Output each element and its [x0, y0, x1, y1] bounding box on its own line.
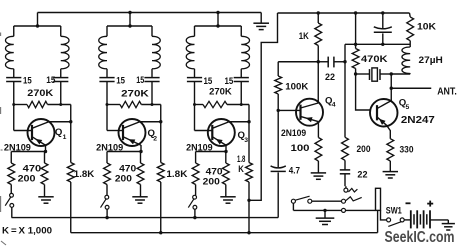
node: row 3 ground junction [323, 209, 326, 212]
wire: stage 3 base wire [195, 130, 213, 132]
svg-text:ANT.: ANT. [437, 87, 457, 98]
wire: stage 2 switch to keying rail [106, 209, 108, 217]
svg-text:100K: 100K [285, 82, 308, 92]
node: stage 2 collector junction [159, 120, 162, 123]
ground (Q5 emitter) [383, 171, 398, 173]
svg-text:SeekIC.com: SeekIC.com [385, 229, 455, 246]
svg-text:10K: 10K [417, 22, 436, 32]
svg-text:1.8: 1.8 [237, 154, 245, 164]
transistor Q4 (2N109 PNP) [296, 99, 323, 126]
wire: jack to SW1 [381, 210, 387, 220]
wire: stage 2 collector rail [160, 105, 162, 163]
node: stage 3 rail on bottom rail [247, 231, 250, 234]
wire: bottom supply rail [71, 232, 378, 234]
svg-text:1K: 1K [299, 31, 309, 41]
wire: stage 1 1.8K to bottom rail [70, 182, 72, 233]
node: tuning cap bottom on wire [381, 43, 384, 46]
svg-text:5: 5 [406, 104, 410, 111]
svg-text:22: 22 [325, 72, 335, 82]
svg-text:15: 15 [46, 75, 55, 85]
node: stage 1 collector junction [69, 120, 72, 123]
resistor 330 [387, 139, 394, 161]
capacitor 15 (stage 1 right) [53, 77, 68, 79]
node: stage 3 right cap / 270K [240, 103, 243, 106]
node: stage 3 collector junction [247, 120, 250, 123]
capacitor (tuning, top right) [382, 13, 384, 28]
svg-text:470: 470 [119, 164, 136, 174]
node: crystal / 27uH junction [390, 72, 393, 75]
node: Q3 emitter junction [224, 150, 227, 153]
resistor 200 (Q5) [344, 62, 346, 138]
wire: Q2 emitter drop [140, 145, 142, 152]
node: stage 2 left cap / 270K [106, 103, 109, 106]
wire: 22/200 chain top [344, 44, 346, 61]
svg-text:200: 200 [18, 174, 36, 184]
inductor 27uH [402, 47, 410, 73]
jack J1 [376, 188, 381, 210]
node: stage 2 drop on top rail [128, 11, 131, 14]
node: 1K / 22 / collector junction [317, 60, 320, 63]
capacitor 15 (stage 3 left) [187, 77, 202, 79]
resistor 10K [409, 13, 412, 17]
ground (stage 1 470) [38, 196, 53, 198]
node: stage 3 left cap / 270K [193, 103, 196, 106]
svg-text:470: 470 [206, 166, 223, 176]
wire: row 2 left stem [292, 203, 294, 210]
node: stage 1 left cap / 270K [12, 103, 15, 106]
svg-text:200: 200 [357, 144, 371, 154]
label - (battery) [406, 202, 411, 204]
crystal XTAL [356, 73, 370, 75]
capacitor 15 (stage 2 right) [144, 77, 159, 79]
node: stage 2 right cap / 270K [151, 103, 154, 106]
ground (top rail, right end) [260, 13, 262, 24]
resistor 1.8K (stage 3) [246, 163, 253, 183]
resistor 470 (stage 1) [44, 152, 46, 164]
svg-text:470K: 470K [361, 54, 388, 64]
resistor 100 [315, 138, 322, 162]
svg-text:15: 15 [116, 75, 125, 85]
transistor Q2 (2N109 PNP) [119, 119, 146, 146]
inductor T3 primary (left winding) [194, 26, 196, 36]
wire: supply leg from right rail down/left [249, 13, 278, 200]
resistor 200 (stage 1) [10, 152, 12, 164]
wire: Q4 base wire [278, 109, 300, 111]
wire: stage 1 collector rail [70, 105, 72, 163]
wire: 22 keying cap to jack contact [345, 186, 347, 188]
resistor 470K [355, 13, 357, 49]
wire: row 3 to jack [346, 209, 376, 211]
svg-text:27µH: 27µH [419, 55, 444, 65]
wire: stage 2 1.8K to bottom rail [160, 182, 162, 233]
wire: Q2 collector to rail [140, 121, 161, 123]
resistor 1K [317, 13, 319, 23]
node: stage 2 transformer centre tap [128, 24, 131, 27]
wire: Q5 emitter drop [387, 125, 391, 138]
wire: row 2 [312, 200, 342, 202]
resistor 200 (stage 3) [195, 152, 197, 164]
transistor Q5 (2N247 PNP) [370, 99, 398, 127]
node: stage 1 right cap / 270K [59, 103, 62, 106]
svg-text:15: 15 [136, 75, 144, 85]
wire: Q3 emitter drop [225, 145, 227, 152]
svg-text:270K: 270K [209, 86, 232, 96]
switch SW1 [387, 218, 391, 222]
transformer T2 top wire [107, 25, 152, 27]
resistor 100K [277, 62, 279, 76]
wire: keying rail [12, 217, 279, 219]
node: stage 2 key on keying rail [105, 216, 108, 219]
wire: Q3 collector to rail [229, 121, 249, 123]
wire: antenna feed [391, 87, 431, 89]
node: stage 3 transformer centre tap [216, 24, 219, 27]
svg-text:200: 200 [203, 176, 220, 186]
wire: stage 1 emitter wire [11, 151, 45, 153]
node: ANT junction [390, 87, 393, 90]
node: stage 1 transformer centre tap [36, 24, 39, 27]
transformer T1 top wire [14, 25, 61, 27]
svg-text:100: 100 [291, 143, 310, 153]
svg-text:K = X 1,000: K = X 1,000 [2, 225, 52, 235]
svg-text:1: 1 [63, 134, 67, 141]
node: 1K top on rail [317, 11, 320, 14]
transformer T3 top wire [195, 25, 242, 27]
svg-text:1.8K: 1.8K [166, 169, 187, 179]
svg-text:22: 22 [357, 170, 367, 180]
wire: stage 1 feed drop from rail [37, 13, 39, 27]
wire: Q5 collector riser [390, 74, 392, 101]
node: supply leg joins 1.8K rail of stage 3 [247, 199, 250, 202]
wire: stage 3 emitter wire [196, 151, 226, 153]
wire: stage 3 collector rail [248, 105, 250, 163]
svg-text:270K: 270K [27, 88, 53, 98]
svg-text:3: 3 [244, 137, 248, 144]
wire: bottom rail to jack [377, 210, 379, 232]
wire: Q4 collector riser [317, 62, 319, 103]
resistor 470 (stage 2) [140, 152, 142, 164]
inductor T1 primary (left winding) [13, 26, 15, 36]
svg-text:4: 4 [332, 102, 336, 109]
inductor T1 secondary (right winding) [60, 26, 62, 36]
label + (battery) [427, 203, 433, 205]
wire: 470K to Q5 base [356, 74, 371, 110]
resistor 270K (stage 3) [195, 104, 204, 106]
svg-text:15: 15 [204, 76, 213, 86]
switch contact (row 2 right) [342, 199, 346, 203]
switch contact (row 3) [342, 208, 346, 212]
svg-text:15: 15 [23, 75, 32, 85]
svg-text:2: 2 [153, 135, 157, 142]
transistor Q1 (2N109 PNP) [28, 119, 55, 146]
node: 470K / crystal junction [354, 72, 357, 75]
resistor 200 (stage 2) [106, 152, 108, 164]
node: Q4 base junction [277, 109, 280, 112]
node: 22 cap to 200 chain [343, 60, 346, 63]
node: 470K top on rail [354, 11, 357, 14]
ground (stage 2 470) [132, 196, 147, 198]
scan artifacts left edge [1, 33, 6, 246]
inductor T2 primary (left winding) [106, 26, 108, 36]
wire: stage 3 1.8K to bottom rail [248, 182, 250, 233]
wire: mid node wire [345, 43, 410, 45]
switch (stage 1 key contact) [10, 193, 14, 197]
svg-text:330: 330 [400, 145, 414, 155]
ground (battery +) [447, 220, 449, 224]
svg-text:4.7: 4.7 [289, 166, 300, 176]
svg-text:470: 470 [23, 164, 42, 174]
inductor T3 secondary (right winding) [240, 26, 242, 36]
wire: 27uH bottom to crystal wire [391, 73, 410, 75]
svg-text:2N247: 2N247 [401, 115, 435, 126]
switch (stage 2 key contact) [105, 195, 109, 199]
svg-text:15: 15 [225, 76, 234, 86]
svg-text:SW1: SW1 [386, 205, 402, 215]
ground (stage 3 470) [220, 196, 235, 198]
wire: left V+ top rail [38, 12, 262, 14]
node: Q1 emitter junction [44, 150, 47, 153]
transistor Q3 (2N109 PNP) [208, 119, 235, 146]
node: stage 2 rail on bottom rail [159, 231, 162, 234]
wire: Q4 emitter drop [317, 122, 319, 138]
resistor 1.8K (stage 1) [67, 163, 74, 183]
capacitor 22 (keying) [340, 169, 350, 171]
capacitor 15 (stage 1 left) [6, 77, 21, 79]
svg-text:2N109: 2N109 [281, 128, 306, 138]
node: 470K on mid wire [354, 43, 357, 46]
ground (Q4 emitter) [311, 172, 326, 174]
capacitor 15 (stage 3 right) [234, 77, 249, 79]
wire: stage 2 base wire [107, 130, 123, 132]
wire: stage 3 feed drop from rail [217, 13, 219, 27]
switch (stage 3 key contact) [193, 195, 197, 199]
svg-text:K: K [238, 164, 244, 174]
switch wiper (row 1) [348, 188, 357, 192]
wire: right top rail [278, 12, 410, 14]
resistor 1.8K (stage 2) [157, 163, 164, 183]
wire: stage 3 switch to keying rail [194, 209, 196, 217]
wire: Q1 emitter drop [45, 145, 47, 152]
capacitor 22 (series coupling) [327, 57, 329, 68]
switch (knife, row 2 left) [291, 199, 295, 203]
wire: stage 1 base wire [14, 130, 32, 132]
switch contact (row 1) [344, 188, 348, 192]
resistor 470 (stage 3) [225, 152, 227, 164]
wire: 100K top wire [278, 61, 318, 63]
node: stage 3 key on keying rail [193, 216, 196, 219]
resistor 270K (stage 1) [14, 104, 27, 106]
battery B1 [404, 219, 411, 221]
switch wiper (row 2) [346, 197, 362, 201]
wire: Q1 collector to rail [49, 121, 71, 123]
wire: stage 2 feed drop from rail [129, 13, 131, 27]
wire: row 3 [293, 209, 341, 211]
inductor T2 secondary (right winding) [151, 26, 153, 36]
node: tuning cap top on rail [381, 11, 384, 14]
ground (switch common) [324, 210, 326, 218]
capacitor 4.7 [277, 110, 279, 167]
node: Q2 emitter junction [139, 150, 142, 153]
node: stage 3 drop on top rail [216, 11, 219, 14]
svg-text:1.8K: 1.8K [74, 169, 95, 179]
capacitor 15 (stage 2 left) [99, 77, 114, 79]
svg-text:270K: 270K [121, 88, 149, 98]
wire: stage 2 emitter wire [107, 151, 141, 153]
svg-text:200: 200 [115, 174, 132, 184]
wire: stage 1 switch to keying rail [11, 207, 13, 217]
resistor 270K (stage 2) [107, 104, 120, 106]
